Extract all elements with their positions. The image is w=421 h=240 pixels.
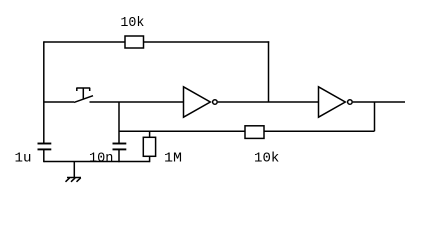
inverter U2 output bubble [348, 100, 353, 105]
switch S1 blade [74, 96, 93, 103]
svg-text:1M: 1M [164, 151, 182, 167]
resistor R2 body [143, 137, 155, 156]
switch S1 actuator bar [76, 87, 90, 89]
capacitor C1 top plate [38, 143, 52, 145]
wire U2 output [353, 101, 405, 103]
wire 1M top stub [149, 131, 151, 137]
ground stem [73, 162, 75, 178]
wire node vertical at x=119 [118, 102, 120, 143]
svg-text:10k: 10k [254, 151, 279, 167]
wire 1M bottom stub [149, 156, 151, 162]
op-amp inverter U2 triangle [319, 87, 346, 117]
switch S1 bar left serif [76, 88, 78, 91]
resistor R3 body [245, 126, 264, 139]
wire U1 output to U2 input [218, 101, 319, 103]
svg-text:1u: 1u [15, 151, 32, 167]
op-amp inverter U1 triangle [184, 87, 211, 117]
ground tick left [66, 178, 70, 182]
wire left vertical [43, 41, 45, 143]
wire top left segment [44, 41, 125, 43]
wire switch left stub [44, 101, 74, 103]
wire right vertical from top to middle [268, 41, 270, 102]
wire feedback rail left segment [119, 130, 245, 132]
wire C2 bottom stem [118, 149, 120, 162]
ground bar [67, 177, 81, 179]
svg-text:10n: 10n [89, 151, 114, 167]
capacitor C2 bottom plate [113, 148, 127, 150]
wire bottom rail [44, 161, 150, 163]
wire feedback rail right segment [264, 130, 375, 132]
inverter U1 output bubble [213, 100, 218, 105]
wire top right segment [144, 41, 270, 43]
resistor R1 body [125, 36, 144, 48]
wire output drop vertical [374, 102, 376, 131]
wire middle from switch to U1 input [90, 101, 184, 103]
switch S1 bar right serif [89, 88, 91, 91]
capacitor C1 bottom plate [38, 148, 52, 150]
wire C1 bottom stem [43, 149, 45, 162]
switch S1 actuator stem [82, 88, 84, 99]
ground tick middle [71, 178, 75, 182]
svg-text:10k: 10k [120, 15, 144, 31]
ground tick right [77, 178, 81, 182]
capacitor C2 top plate [113, 143, 127, 145]
